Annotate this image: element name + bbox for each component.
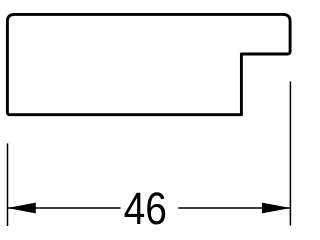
- dimension line right segment: [178, 207, 290, 209]
- svg-text:46: 46: [124, 183, 167, 233]
- right extension line: [289, 82, 291, 226]
- left arrowhead: [7, 203, 36, 214]
- right arrowhead: [262, 203, 291, 214]
- moulding profile outline: [7, 14, 290, 114]
- left extension line: [7, 143, 9, 226]
- dimension line left segment: [8, 207, 121, 209]
